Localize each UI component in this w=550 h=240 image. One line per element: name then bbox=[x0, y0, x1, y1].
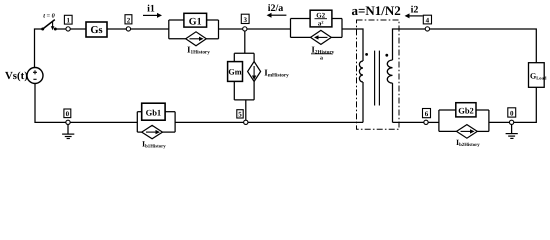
wire node 4 to right corner bbox=[430, 29, 537, 63]
svg-text:t = 0: t = 0 bbox=[43, 13, 55, 20]
node 0 right bbox=[508, 108, 516, 117]
current source Ib1History bbox=[137, 131, 141, 133]
wire switch to node 1 bbox=[55, 28, 66, 30]
node 1 bbox=[64, 15, 72, 24]
transformer dash-dot box bbox=[357, 20, 400, 129]
svg-text:0: 0 bbox=[510, 110, 514, 118]
svg-text:Gb2: Gb2 bbox=[458, 105, 474, 115]
rail Gb1 group to node 5 bbox=[175, 121, 244, 123]
switch t=0 bbox=[41, 28, 44, 31]
svg-text:2: 2 bbox=[127, 16, 131, 24]
node 6 bbox=[423, 109, 431, 118]
svg-text:Ib1History: Ib1History bbox=[142, 140, 166, 150]
svg-text:3: 3 bbox=[243, 16, 247, 24]
svg-text:G1: G1 bbox=[189, 17, 202, 28]
svg-text:a: a bbox=[320, 56, 323, 62]
svg-text:i2: i2 bbox=[411, 5, 419, 16]
current source ImHistory bbox=[253, 53, 255, 61]
svg-text:5: 5 bbox=[238, 111, 242, 119]
transformer left winding bbox=[359, 61, 363, 82]
wire G2 group to transformer bbox=[342, 29, 363, 61]
conductance GLoad bbox=[529, 63, 545, 88]
conductance Gs bbox=[86, 22, 107, 37]
node 2 bbox=[125, 15, 132, 24]
wire node 3 down to Gm group bbox=[244, 31, 246, 53]
svg-text:G2: G2 bbox=[316, 11, 325, 19]
svg-text:Gm: Gm bbox=[228, 67, 241, 76]
svg-text:Gs: Gs bbox=[90, 25, 102, 36]
svg-text:4: 4 bbox=[426, 17, 430, 25]
conductance Gb1 bbox=[136, 112, 138, 132]
current source Ib2History bbox=[439, 130, 457, 132]
svg-text:Ib2History: Ib2History bbox=[456, 138, 480, 148]
wire node 1 to Gs bbox=[70, 28, 86, 30]
ground left bbox=[67, 125, 69, 135]
svg-text:1: 1 bbox=[66, 17, 70, 25]
ground right bbox=[511, 125, 513, 134]
wire source bottom to bottom rail bbox=[35, 84, 66, 123]
svg-text:ImHistory: ImHistory bbox=[264, 68, 289, 79]
wire G1 group to node 3 bbox=[219, 28, 243, 30]
bottom rail node 0 to Gb1 group bbox=[70, 121, 137, 123]
conductance G2/a2 bbox=[290, 19, 292, 38]
conductance Gb2 bbox=[438, 110, 440, 131]
transformer core bbox=[374, 51, 376, 106]
voltage source Vs(t) bbox=[27, 68, 43, 84]
svg-text:a²: a² bbox=[318, 20, 324, 28]
svg-text:I1History: I1History bbox=[187, 45, 210, 56]
wire Gs to node 2 bbox=[107, 28, 126, 30]
node 0 left bbox=[64, 109, 71, 118]
svg-text:Gb1: Gb1 bbox=[146, 108, 162, 118]
svg-text:6: 6 bbox=[425, 110, 429, 118]
rail node 5 to transformer bbox=[248, 121, 363, 123]
svg-text:i2/a: i2/a bbox=[268, 3, 284, 14]
rail Gb2 group to node 0 right bbox=[489, 121, 510, 123]
wire Gm group to node 5 bbox=[234, 99, 254, 101]
node 4 bbox=[423, 15, 431, 24]
svg-text:a=N1/N2: a=N1/N2 bbox=[352, 3, 401, 18]
conductance Gm bbox=[234, 52, 254, 54]
rail node 6 to Gb2 group bbox=[428, 121, 439, 123]
conductance G1 bbox=[168, 20, 170, 39]
node 3 bbox=[241, 14, 249, 23]
svg-text:i1: i1 bbox=[147, 4, 155, 15]
wire GLoad to bottom rail bbox=[514, 87, 537, 122]
current source I2History/a bbox=[291, 36, 311, 38]
node 5 bbox=[237, 110, 243, 118]
rail transformer right winding to node 6 bbox=[393, 121, 425, 123]
wire node 3 to G2 group bbox=[247, 28, 291, 30]
wire node 2 to G1 group bbox=[131, 28, 169, 30]
svg-text:Vs(t): Vs(t) bbox=[5, 70, 28, 82]
svg-text:0: 0 bbox=[66, 110, 70, 118]
transformer right winding bbox=[393, 29, 428, 60]
current source I1History bbox=[169, 38, 186, 40]
wire left top corner to switch bbox=[35, 29, 43, 68]
